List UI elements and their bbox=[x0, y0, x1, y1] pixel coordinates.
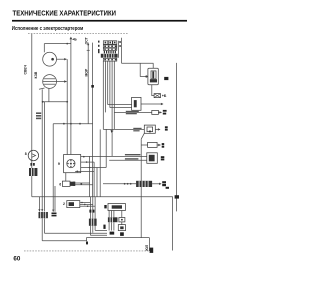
svg-text:60: 60 bbox=[13, 256, 20, 263]
svg-text:+Б: +Б bbox=[162, 94, 167, 98]
svg-text:ЮЛ: ЮЛ bbox=[145, 244, 149, 250]
svg-text:8: 8 bbox=[25, 152, 27, 156]
svg-text:6: 6 bbox=[59, 182, 61, 186]
svg-text:МОР: МОР bbox=[85, 68, 89, 76]
svg-text:ОСТ: ОСТ bbox=[85, 36, 89, 44]
svg-text:+Б: +Б bbox=[72, 38, 77, 42]
svg-text:2: 2 bbox=[63, 202, 65, 206]
svg-text:9: 9 bbox=[58, 162, 60, 166]
svg-text:КЗВ: КЗВ bbox=[34, 71, 38, 78]
svg-text:ТЕХНИЧЕСКИЕ ХАРАКТЕРИСТИКИ: ТЕХНИЧЕСКИЕ ХАРАКТЕРИСТИКИ bbox=[13, 9, 117, 18]
svg-text:СВЕЧ: СВЕЧ bbox=[24, 64, 28, 74]
svg-text:Исполнение с электростартером: Исполнение с электростартером bbox=[12, 26, 84, 32]
